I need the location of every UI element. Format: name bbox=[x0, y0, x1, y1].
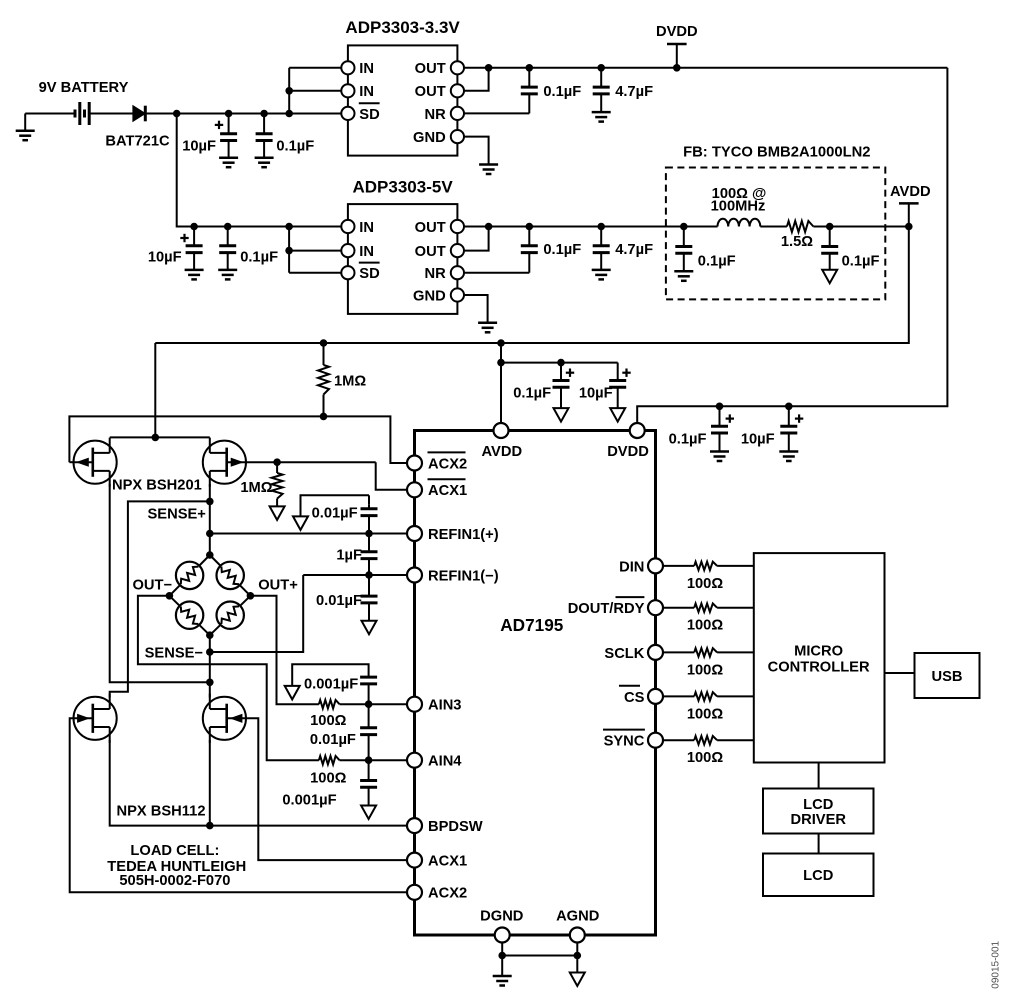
svg-text:LCD: LCD bbox=[803, 868, 833, 884]
svg-text:10µF: 10µF bbox=[182, 139, 216, 155]
svg-text:0.001µF: 0.001µF bbox=[304, 676, 358, 692]
svg-text:4.7µF: 4.7µF bbox=[615, 242, 653, 258]
svg-text:100Ω: 100Ω bbox=[310, 771, 347, 787]
svg-text:0.1µF: 0.1µF bbox=[240, 250, 278, 266]
svg-text:ADP3303-3.3V: ADP3303-3.3V bbox=[345, 18, 460, 37]
svg-text:9V BATTERY: 9V BATTERY bbox=[39, 80, 129, 96]
svg-text:1.5Ω: 1.5Ω bbox=[781, 234, 813, 250]
svg-text:DGND: DGND bbox=[480, 909, 523, 925]
svg-text:DOUT/RDY: DOUT/RDY bbox=[568, 601, 645, 617]
svg-text:BAT721C: BAT721C bbox=[105, 134, 170, 150]
svg-text:ACX2: ACX2 bbox=[428, 886, 467, 902]
svg-text:AVDD: AVDD bbox=[890, 184, 931, 200]
svg-text:IN: IN bbox=[359, 244, 374, 260]
svg-text:REFIN1(−): REFIN1(−) bbox=[428, 568, 499, 584]
svg-text:0.1µF: 0.1µF bbox=[543, 242, 581, 258]
svg-text:100Ω: 100Ω bbox=[687, 662, 724, 678]
svg-text:CONTROLLER: CONTROLLER bbox=[768, 659, 870, 675]
svg-text:DRIVER: DRIVER bbox=[791, 812, 847, 828]
svg-text:0.01µF: 0.01µF bbox=[310, 732, 356, 748]
svg-text:SENSE+: SENSE+ bbox=[148, 507, 206, 523]
svg-text:REFIN1(+): REFIN1(+) bbox=[428, 527, 499, 543]
svg-text:505H-0002-F070: 505H-0002-F070 bbox=[119, 873, 230, 889]
svg-text:ACX1: ACX1 bbox=[428, 854, 467, 870]
svg-text:0.01µF: 0.01µF bbox=[316, 593, 362, 609]
svg-text:0.01µF: 0.01µF bbox=[312, 506, 358, 522]
svg-text:100Ω: 100Ω bbox=[310, 713, 347, 729]
svg-text:AD7195: AD7195 bbox=[500, 615, 564, 635]
svg-text:OUT: OUT bbox=[415, 220, 446, 236]
svg-text:10µF: 10µF bbox=[148, 250, 182, 266]
svg-text:OUT: OUT bbox=[415, 61, 446, 77]
svg-text:100Ω: 100Ω bbox=[687, 618, 724, 634]
svg-text:CS: CS bbox=[624, 690, 645, 706]
svg-text:NPX BSH201: NPX BSH201 bbox=[112, 477, 202, 493]
svg-text:0.1µF: 0.1µF bbox=[276, 139, 314, 155]
svg-text:DVDD: DVDD bbox=[607, 444, 649, 460]
svg-text:0.1µF: 0.1µF bbox=[842, 254, 880, 270]
svg-text:SCLK: SCLK bbox=[604, 646, 644, 662]
svg-text:OUT+: OUT+ bbox=[258, 577, 298, 593]
svg-text:LCD: LCD bbox=[803, 797, 833, 813]
svg-text:GND: GND bbox=[413, 130, 446, 146]
svg-text:ACX2: ACX2 bbox=[428, 456, 467, 472]
svg-text:NR: NR bbox=[424, 107, 446, 123]
svg-text:0.1µF: 0.1µF bbox=[669, 431, 707, 447]
svg-text:SD: SD bbox=[359, 107, 379, 123]
svg-text:OUT: OUT bbox=[415, 244, 446, 260]
svg-text:IN: IN bbox=[359, 61, 374, 77]
svg-text:OUT: OUT bbox=[415, 84, 446, 100]
svg-text:MICRO: MICRO bbox=[794, 643, 843, 659]
svg-text:AVDD: AVDD bbox=[482, 444, 523, 460]
svg-text:10µF: 10µF bbox=[741, 431, 775, 447]
svg-text:09015-001: 09015-001 bbox=[990, 940, 1001, 988]
svg-text:BPDSW: BPDSW bbox=[428, 819, 483, 835]
svg-text:0.1µF: 0.1µF bbox=[698, 254, 736, 270]
svg-text:AIN4: AIN4 bbox=[428, 754, 462, 770]
svg-text:0.1µF: 0.1µF bbox=[513, 385, 551, 401]
svg-text:100Ω: 100Ω bbox=[687, 750, 724, 766]
svg-text:SYNC: SYNC bbox=[604, 734, 645, 750]
svg-text:GND: GND bbox=[413, 288, 446, 304]
svg-text:FB: TYCO BMB2A1000LN2: FB: TYCO BMB2A1000LN2 bbox=[683, 144, 870, 160]
svg-text:100Ω: 100Ω bbox=[687, 706, 724, 722]
svg-text:USB: USB bbox=[931, 669, 962, 685]
svg-text:100Ω: 100Ω bbox=[687, 576, 724, 592]
svg-text:1MΩ: 1MΩ bbox=[240, 480, 272, 496]
svg-text:SENSE−: SENSE− bbox=[145, 645, 203, 661]
svg-text:IN: IN bbox=[359, 84, 374, 100]
svg-text:0.1µF: 0.1µF bbox=[543, 84, 581, 100]
svg-text:DVDD: DVDD bbox=[656, 24, 698, 40]
svg-text:OUT−: OUT− bbox=[133, 577, 173, 593]
svg-text:IN: IN bbox=[359, 220, 374, 236]
svg-text:AIN3: AIN3 bbox=[428, 698, 461, 714]
svg-text:4.7µF: 4.7µF bbox=[615, 84, 653, 100]
svg-text:10µF: 10µF bbox=[579, 385, 613, 401]
svg-text:SD: SD bbox=[359, 266, 379, 282]
svg-text:LOAD CELL:: LOAD CELL: bbox=[130, 843, 219, 859]
svg-text:NR: NR bbox=[424, 266, 446, 282]
svg-text:NPX BSH112: NPX BSH112 bbox=[117, 803, 206, 819]
svg-text:1MΩ: 1MΩ bbox=[334, 373, 366, 389]
svg-text:DIN: DIN bbox=[619, 559, 644, 575]
svg-text:1µF: 1µF bbox=[336, 547, 362, 563]
svg-text:ACX1: ACX1 bbox=[428, 483, 467, 499]
svg-text:0.001µF: 0.001µF bbox=[282, 792, 336, 808]
svg-text:AGND: AGND bbox=[556, 909, 599, 925]
svg-text:ADP3303-5V: ADP3303-5V bbox=[353, 177, 454, 196]
svg-text:100MHz: 100MHz bbox=[711, 199, 766, 215]
